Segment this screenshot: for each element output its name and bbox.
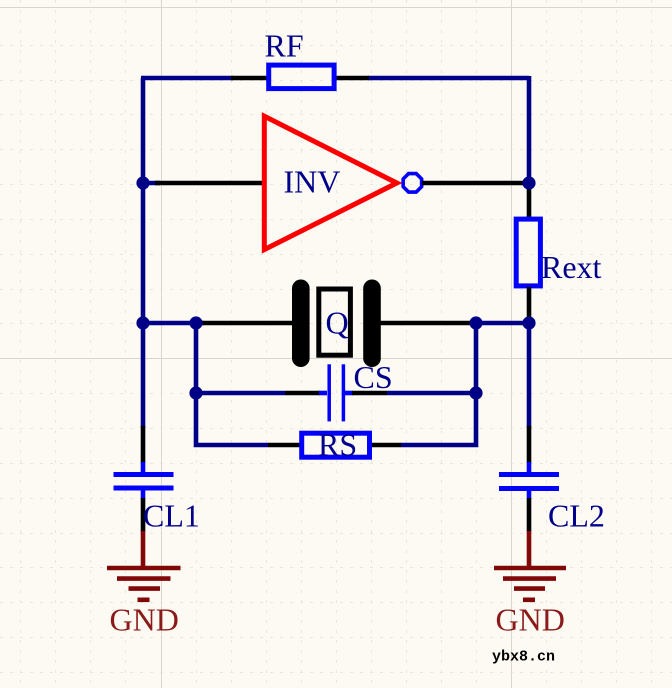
pin: RS right lead: [371, 443, 401, 448]
wire: top horizontal left segment: [141, 76, 233, 81]
capacitor CL2 bottom stub: [527, 490, 532, 499]
ground GND1 bar 3: [129, 586, 161, 591]
pin: CL1 bottom black lead: [141, 498, 146, 532]
wire: CL2 top black lead: [527, 426, 532, 463]
capacitor CL1 bottom plate: [114, 486, 174, 491]
pin: RF right lead: [336, 76, 369, 81]
svg-text:Rext: Rext: [541, 249, 602, 285]
pin: Rext top lead: [527, 186, 532, 218]
ground GND2 bar 2: [503, 576, 556, 581]
pin: CS left lead: [285, 391, 320, 396]
svg-text:RF: RF: [265, 28, 304, 64]
wire: right vertical upper (to INV output node): [527, 76, 532, 183]
svg-text:RS: RS: [318, 427, 357, 463]
svg-text:Q: Q: [326, 305, 349, 341]
pin: INV input lead: [155, 181, 264, 186]
ground GND1 bar 2: [117, 576, 171, 581]
pin: crystal left lead: [202, 321, 293, 326]
crystal Q left electrode bar: [292, 280, 310, 368]
resistor Rext body: [516, 219, 540, 286]
capacitor CS left plate: [327, 364, 331, 421]
inverter output bubble: [403, 174, 421, 192]
pin: CL2 bottom black lead: [527, 498, 532, 532]
svg-text:GND: GND: [110, 602, 179, 638]
junction node: crystal row right branch: [469, 316, 482, 329]
pin: RS left lead: [268, 443, 302, 448]
ground GND1 bar 4: [138, 597, 150, 602]
capacitor CL2 bottom plate: [499, 486, 559, 491]
svg-text:ybx8.cn: ybx8.cn: [492, 649, 555, 666]
wire: left branch down to CS row: [196, 323, 285, 393]
capacitor CL2 top plate: [499, 472, 559, 477]
svg-text:CL1: CL1: [143, 498, 200, 534]
junction node: crystal row left branch: [189, 316, 202, 329]
wire: crystal row left stub: [143, 321, 204, 326]
junction node: left rail / INV input: [136, 176, 149, 189]
capacitor CL1 bottom stub: [141, 490, 146, 499]
capacitor CL1 top plate: [114, 472, 174, 477]
crystal Q right electrode bar: [363, 280, 381, 368]
ground GND1 bar 1: [107, 566, 181, 571]
svg-text:GND: GND: [496, 602, 565, 638]
junction node: CS row right: [469, 386, 482, 399]
ground GND2 bar 4: [523, 597, 535, 602]
ground GND1 stem: [141, 531, 146, 567]
capacitor CL1 top stub: [141, 462, 146, 472]
crystal Q body rectangle: [319, 289, 351, 355]
capacitor CS right stub: [345, 391, 353, 396]
capacitor CL2 top stub: [527, 462, 532, 472]
junction node: right rail / INV output: [522, 176, 535, 189]
resistor RS body: [302, 433, 370, 457]
wire: left branch down to RS row: [196, 393, 268, 445]
pin: Rext bottom lead: [527, 287, 532, 322]
junction node: left rail / crystal row: [136, 316, 149, 329]
svg-text:CS: CS: [354, 359, 393, 395]
wire: right rail lower segment (crystal row to CL2): [527, 323, 532, 428]
wire: crystal row navy from right junction to right rail: [476, 321, 529, 326]
ground GND2 stem: [527, 531, 532, 567]
ground GND2 bar 1: [494, 566, 566, 571]
wire: CL1 top black lead: [141, 426, 146, 463]
wire: right branch down to RS row: [401, 393, 476, 445]
capacitor CS right plate: [342, 364, 346, 421]
pin: RF left lead: [231, 76, 267, 81]
pin: CS right lead: [352, 391, 387, 396]
pin: crystal right lead: [380, 321, 476, 326]
capacitor CS left stub: [319, 391, 327, 396]
wire: right branch down to CS row: [387, 323, 476, 393]
resistor RF body: [269, 65, 334, 89]
wire: top horizontal right segment: [368, 76, 529, 81]
junction node: CS row left: [189, 386, 202, 399]
junction node: right rail / crystal row: [522, 316, 535, 329]
wire: INV input stub from left rail: [143, 181, 160, 186]
op-amp/inverter U1 INV triangle: [264, 116, 397, 249]
svg-text:INV: INV: [284, 164, 341, 200]
ground GND2 bar 3: [514, 586, 545, 591]
pin: INV output lead: [422, 181, 528, 186]
wire: feedback loop left vertical: [141, 78, 146, 428]
svg-text:CL2: CL2: [548, 498, 605, 534]
